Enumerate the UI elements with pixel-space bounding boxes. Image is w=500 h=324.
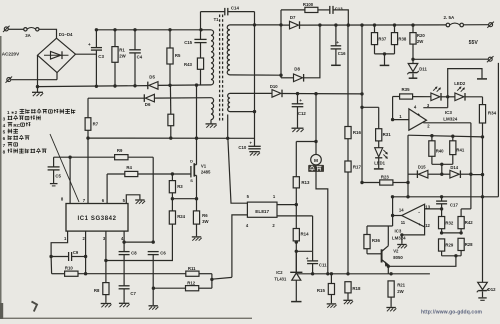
capacitor C8 — [119, 242, 138, 286]
op-amp IC3a — [391, 103, 458, 130]
wire pin4 rc — [122, 231, 154, 244]
resistor R14 — [293, 229, 309, 273]
wire pin2 column — [84, 231, 87, 275]
svg-text:R23: R23 — [381, 174, 389, 179]
wire R11 R12 join — [210, 274, 232, 289]
svg-text:C13: C13 — [335, 6, 343, 11]
capacitor C11 — [306, 251, 327, 273]
svg-text:D15: D15 — [418, 165, 426, 170]
diode D14 — [442, 165, 473, 178]
svg-text:C5: C5 — [55, 174, 61, 179]
label AC220V — [2, 51, 20, 56]
wire pin5 ground — [126, 195, 145, 204]
wire V2 collector — [367, 225, 393, 227]
resistor R41 — [450, 136, 465, 164]
resistor R15 — [317, 274, 335, 304]
wire R40 R41 bottom — [432, 163, 453, 175]
svg-text:TL431: TL431 — [274, 276, 287, 281]
wire hot rail — [38, 86, 148, 87]
svg-text:C9: C9 — [73, 250, 79, 255]
capacitor C10 — [238, 141, 260, 156]
svg-text:D5: D5 — [149, 75, 155, 80]
wire pin1 comp — [49, 231, 67, 258]
resistor R24 — [106, 211, 186, 261]
ground (R6) — [192, 237, 202, 241]
svg-text:D12: D12 — [488, 287, 496, 292]
output terminal - — [487, 56, 494, 62]
svg-text:3A: 3A — [25, 33, 31, 38]
capacitor C13 — [330, 6, 349, 25]
svg-text:5: 5 — [3, 130, 6, 135]
label 55V — [469, 40, 479, 46]
resistor R23 — [360, 174, 408, 185]
svg-text:C12: C12 — [298, 111, 306, 116]
svg-text:R29: R29 — [445, 243, 453, 248]
resistor R6 — [193, 199, 209, 237]
IC1 SG3842 — [61, 197, 128, 241]
shunt regulator IC2 TL431 — [274, 251, 302, 301]
svg-text:R28: R28 — [465, 242, 473, 247]
svg-text:C14: C14 — [231, 6, 240, 11]
svg-text:+: + — [336, 40, 339, 45]
resistor R9 — [54, 148, 154, 242]
svg-text:R5: R5 — [175, 53, 181, 58]
svg-text:C10: C10 — [238, 145, 246, 150]
svg-text:D11: D11 — [419, 67, 427, 72]
resistor R28 — [458, 238, 473, 256]
resistor R35 — [393, 87, 431, 99]
resistor R16 — [345, 25, 362, 139]
wire bridge positive riser — [76, 53, 97, 55]
svg-text:C11: C11 — [319, 262, 327, 267]
wire op2 pin13 — [425, 207, 444, 210]
svg-text:D7: D7 — [290, 15, 296, 20]
svg-text:+: + — [88, 43, 91, 48]
transistor V2 8050 — [367, 226, 403, 274]
wire rail x254 — [253, 12, 256, 147]
capacitor C7 — [119, 286, 137, 303]
AC input terminal L — [3, 26, 10, 32]
svg-text:8050: 8050 — [393, 255, 403, 260]
svg-text:D8: D8 — [294, 67, 300, 72]
svg-text:http://www.go-gddq.com: http://www.go-gddq.com — [421, 309, 482, 315]
svg-text:M: M — [314, 158, 318, 164]
svg-text:R3: R3 — [177, 184, 183, 189]
wire D14 to R34 column — [471, 173, 484, 176]
wire op1 pin2 — [423, 122, 471, 124]
wire pin3 column — [104, 231, 107, 283]
ground (R37 R38) — [375, 52, 395, 65]
svg-text:R15: R15 — [317, 288, 326, 293]
resistor R11 — [186, 266, 212, 276]
wire secondary upper bottom — [230, 25, 283, 78]
svg-text:12: 12 — [425, 223, 430, 228]
wire R35 feedback stub — [392, 97, 394, 120]
capacitor C15 — [184, 39, 206, 58]
op-amp IC3b — [391, 204, 431, 240]
svg-text:R1: R1 — [119, 48, 125, 53]
svg-text:C15: C15 — [184, 40, 192, 45]
wire top rail — [95, 28, 203, 31]
wire plus rail — [281, 23, 446, 26]
resistor R4 — [107, 165, 191, 177]
wire fan to R13 — [296, 141, 316, 143]
svg-text:R17: R17 — [353, 165, 362, 170]
svg-text:D6: D6 — [145, 102, 151, 107]
svg-text:R18: R18 — [352, 286, 361, 291]
output terminal + — [464, 22, 494, 28]
leader line — [50, 134, 79, 202]
svg-text:1: 1 — [7, 110, 10, 115]
svg-text:R4: R4 — [126, 165, 132, 170]
resistor R13 — [293, 142, 310, 229]
svg-text:S: S — [190, 178, 193, 183]
svg-text:R6: R6 — [202, 213, 208, 218]
resistor R1 — [112, 30, 127, 86]
svg-text:+: + — [299, 98, 302, 103]
wire EL817 pin5 — [228, 139, 248, 203]
svg-text:R35: R35 — [402, 87, 411, 92]
snubber R100 — [281, 2, 330, 25]
wire emitter sense — [387, 256, 456, 268]
diode D8 — [281, 25, 320, 82]
svg-text:R38: R38 — [398, 36, 406, 41]
LED2 — [454, 81, 482, 100]
fuse FU1 3A — [24, 28, 39, 39]
wire divider mid — [442, 232, 462, 234]
pin function notes — [3, 109, 76, 154]
wire pin6 feed — [106, 174, 108, 204]
svg-text:55V: 55V — [469, 40, 479, 46]
wire — [200, 12, 202, 40]
LED in optopair — [431, 87, 455, 101]
ground (R15) — [327, 304, 337, 308]
fuse FU2 2.5A — [444, 15, 464, 27]
svg-text:R100: R100 — [303, 2, 314, 7]
wire chassis bracket — [448, 69, 487, 97]
zener D11 — [407, 59, 427, 78]
resistor R10 — [52, 266, 186, 277]
svg-text:LM324: LM324 — [443, 116, 458, 121]
svg-text:R7: R7 — [93, 121, 99, 126]
wire bottom rail — [296, 272, 430, 275]
wire — [95, 83, 211, 88]
wire secondary top — [230, 23, 283, 26]
svg-text:R12: R12 — [187, 281, 195, 286]
capacitor C5 — [48, 157, 62, 186]
svg-text:C3: C3 — [98, 54, 104, 59]
wire op2 pin12 ground — [397, 227, 424, 248]
svg-text:D14: D14 — [450, 165, 458, 170]
fan label — [308, 165, 324, 172]
wire op1 pin2 column — [470, 123, 472, 209]
resistor R21 — [388, 281, 406, 307]
svg-text:D: D — [190, 159, 193, 164]
wire VCC feed — [87, 98, 89, 118]
svg-text:R34: R34 — [488, 110, 497, 115]
wire right edge — [497, 63, 499, 197]
resistor R29 — [439, 239, 454, 256]
resistor R8 — [94, 283, 109, 303]
svg-text:R41: R41 — [456, 148, 464, 153]
diode D6 — [88, 94, 211, 107]
svg-text:C16: C16 — [338, 51, 346, 56]
wire divider bottom — [442, 254, 462, 257]
svg-text:R16: R16 — [353, 130, 362, 135]
wire R23 column — [406, 135, 409, 197]
svg-text:V1: V1 — [201, 164, 207, 169]
svg-text:T1: T1 — [214, 17, 220, 22]
resistor R34 — [479, 97, 496, 199]
wire — [201, 29, 211, 31]
svg-text:C8: C8 — [131, 251, 137, 256]
bridge rectifier D1-D4 — [38, 32, 76, 72]
svg-text:C7: C7 — [130, 291, 136, 296]
svg-text:R13: R13 — [301, 180, 310, 185]
svg-text:R8: R8 — [94, 288, 100, 293]
ground (primary) — [32, 87, 43, 97]
wire pin8 stub — [69, 157, 71, 203]
svg-text:IC1 SG3842: IC1 SG3842 — [77, 216, 116, 222]
wire secondary lower bottom — [230, 111, 255, 113]
svg-text:3W: 3W — [202, 219, 209, 224]
svg-text:C6: C6 — [160, 251, 166, 256]
ground (R8) — [101, 304, 112, 308]
capacitor C12 — [292, 94, 307, 132]
svg-text:AC220V: AC220V — [2, 51, 20, 56]
resistor R17 — [345, 139, 362, 274]
ground (aux winding) — [206, 120, 217, 128]
resistor R2 — [168, 85, 174, 138]
svg-text:8: 8 — [3, 149, 6, 154]
node bridge negative — [36, 85, 39, 88]
svg-text:LED1: LED1 — [374, 160, 385, 165]
optocoupler IC EL817 — [246, 194, 277, 228]
wire EL817 pin1 — [277, 203, 298, 206]
url watermark — [421, 309, 482, 315]
resistor R37 — [371, 25, 386, 54]
capacitor C17 — [436, 197, 458, 209]
wire — [11, 55, 57, 86]
svg-text:EL817: EL817 — [255, 209, 269, 214]
zener D12 — [477, 197, 496, 300]
wire op1 pin3 — [423, 97, 447, 108]
svg-text:LED2: LED2 — [454, 81, 466, 86]
capacitor C4 — [129, 30, 143, 86]
capacitor C9 — [51, 250, 87, 261]
svg-text:4: 4 — [3, 123, 6, 128]
wire drain snubber — [88, 115, 255, 141]
svg-text:11: 11 — [401, 220, 406, 225]
svg-text:R20: R20 — [417, 33, 425, 38]
svg-text:R9: R9 — [117, 148, 123, 153]
svg-text:R11: R11 — [188, 266, 196, 271]
resistor R32 — [439, 209, 454, 235]
diode D5 — [148, 75, 158, 90]
svg-text:R31: R31 — [383, 132, 392, 137]
resistor R40 — [429, 136, 444, 165]
wire pin2 to C11 — [312, 216, 314, 251]
ground (R21) — [386, 308, 396, 312]
resistor R36 — [364, 226, 381, 254]
svg-text:R40: R40 — [436, 149, 444, 154]
wire EL817 pin2 — [277, 215, 313, 217]
svg-text:14: 14 — [399, 208, 404, 213]
svg-text:R32: R32 — [445, 221, 453, 226]
svg-text:2: 2 — [15, 110, 18, 115]
wire R14 to C11 — [296, 250, 312, 252]
diode D15 — [408, 165, 443, 178]
fan motor — [311, 94, 322, 165]
ground (C6) — [149, 306, 159, 310]
wire minus output — [413, 58, 488, 60]
svg-text:2. 5A: 2. 5A — [444, 15, 456, 20]
svg-text:R36: R36 — [372, 238, 381, 243]
ground (C7) — [119, 303, 130, 307]
LED1 — [374, 148, 387, 169]
svg-text:R10: R10 — [65, 266, 73, 271]
svg-text:C17: C17 — [450, 202, 459, 207]
resistor R31 — [376, 107, 392, 147]
svg-text:6: 6 — [3, 136, 6, 141]
resistor R18 — [345, 282, 361, 300]
resistor R7 — [85, 118, 99, 204]
svg-text:2485: 2485 — [201, 170, 211, 175]
svg-text:7: 7 — [3, 143, 6, 148]
mosfet V1 2485 — [190, 85, 211, 199]
capacitor C3 — [88, 30, 105, 87]
svg-text:2W: 2W — [417, 39, 424, 44]
capacitor C14 — [201, 6, 255, 16]
svg-text:LM324: LM324 — [392, 236, 406, 241]
svg-text:+: + — [417, 113, 420, 118]
svg-text:D10: D10 — [270, 84, 278, 89]
ground (R18) — [343, 300, 353, 304]
svg-text:R21: R21 — [397, 283, 405, 288]
resistor R43 — [184, 58, 204, 85]
wire op2 output column — [392, 197, 394, 226]
wire EL817 pin4 — [232, 215, 248, 277]
resistor R38 — [391, 25, 406, 54]
svg-text:V2: V2 — [393, 249, 399, 254]
svg-text:3: 3 — [3, 116, 6, 121]
capacitor C16 — [331, 25, 347, 65]
wire supply column B — [360, 25, 363, 182]
svg-text:2W: 2W — [397, 289, 404, 294]
svg-text:C4: C4 — [137, 55, 143, 60]
wire mid rail — [391, 195, 499, 198]
svg-text:R43: R43 — [184, 62, 192, 67]
svg-text:D1~D4: D1~D4 — [59, 32, 73, 37]
svg-text:+: + — [418, 223, 421, 228]
wire comparator network top — [408, 134, 483, 138]
svg-text:IC3: IC3 — [395, 229, 402, 234]
wire vert to R10 — [50, 257, 53, 274]
wire — [39, 29, 57, 38]
wire source tie — [172, 197, 198, 200]
capacitor C6 — [148, 251, 167, 306]
transformer T1 — [211, 15, 230, 122]
resistor R42 — [458, 209, 473, 235]
wire — [9, 28, 24, 30]
diode D10 — [230, 84, 364, 97]
svg-text:2W: 2W — [119, 53, 126, 58]
wire R31 feed — [362, 106, 379, 108]
svg-text:RC: RC — [13, 123, 20, 128]
svg-text:IC3: IC3 — [445, 110, 453, 115]
wire fan bottom — [316, 165, 328, 274]
diode D7 — [290, 15, 300, 29]
resistor R5 — [167, 30, 181, 86]
svg-text:R37: R37 — [378, 36, 386, 41]
resistor R20 — [410, 25, 425, 61]
svg-text:R14: R14 — [301, 232, 310, 237]
scan artifacts — [0, 36, 252, 319]
AC input terminal N — [6, 77, 13, 83]
resistor R3 — [169, 174, 183, 211]
svg-text:IC2: IC2 — [276, 270, 283, 275]
svg-text:R42: R42 — [465, 220, 473, 225]
svg-text:R24: R24 — [177, 214, 185, 219]
resistor R12 — [152, 281, 212, 291]
